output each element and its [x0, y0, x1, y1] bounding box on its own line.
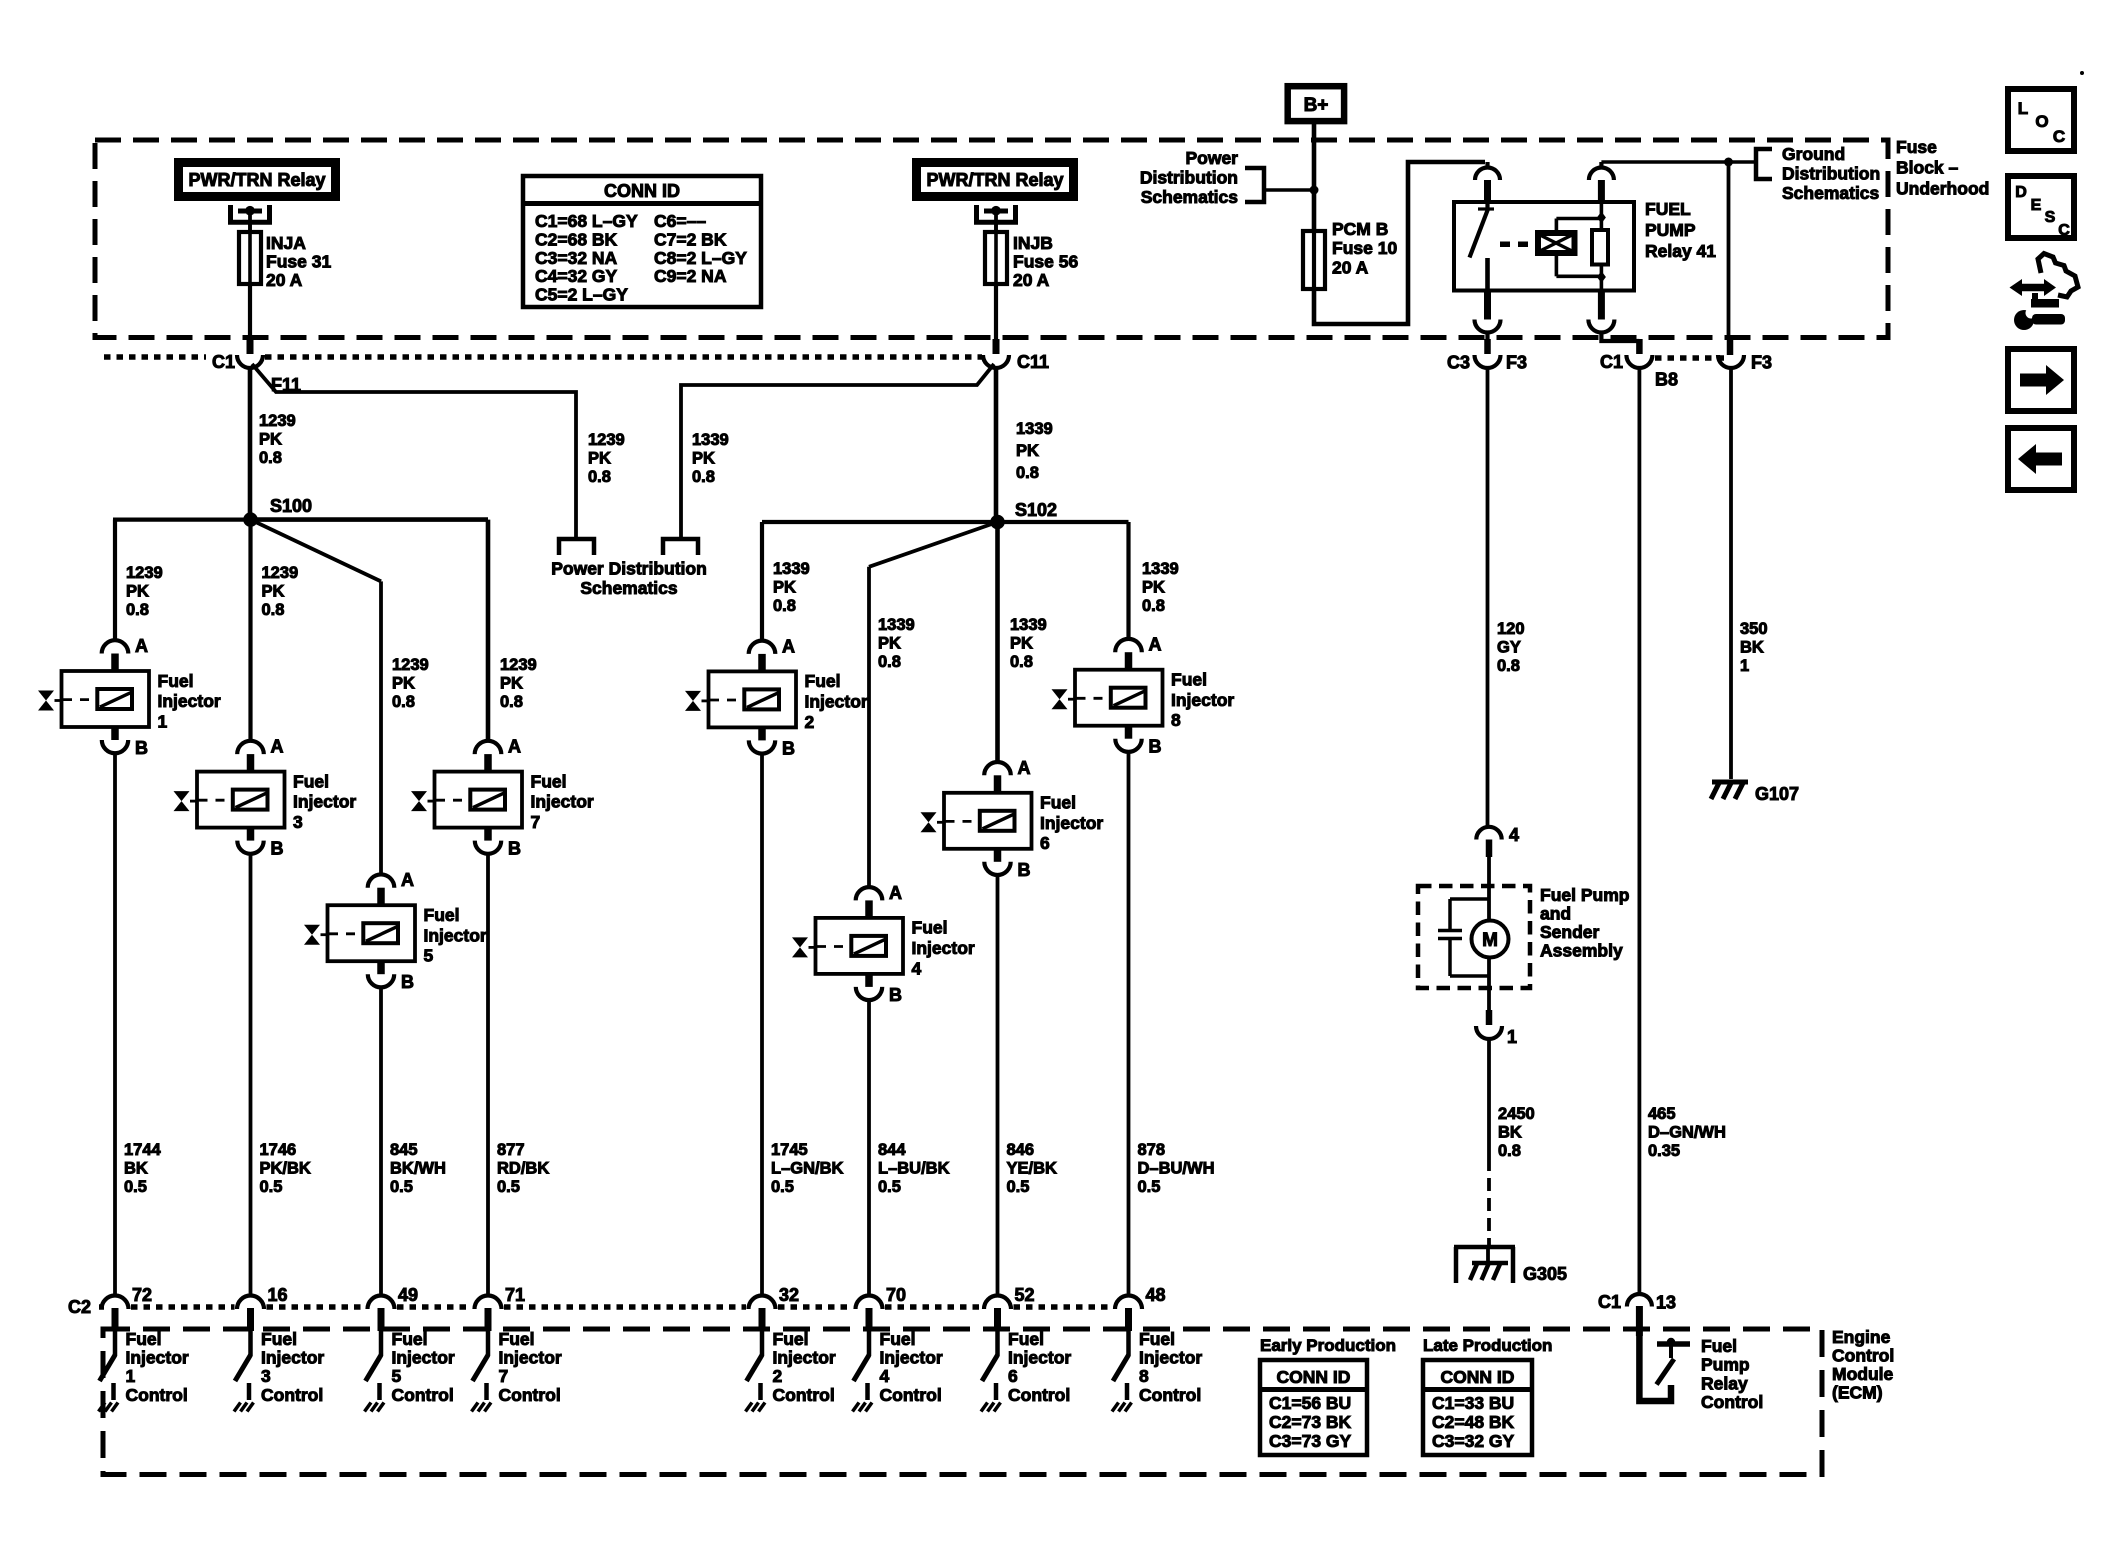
svg-text:52: 52: [1015, 1285, 1035, 1305]
ECM pin 48 connector: [1115, 1296, 1142, 1332]
wire relay coil return to connector C1/B8: [1601, 333, 1639, 355]
label 1239 PK 0.8 (branch): [588, 431, 625, 486]
svg-text:PK: PK: [1016, 442, 1039, 460]
label 1239 PK 0.8 (injector 3): [262, 564, 299, 619]
svg-text:Fuel: Fuel: [392, 1329, 428, 1349]
svg-text:0.5: 0.5: [771, 1178, 794, 1196]
fuse INJB Fuse 56 20 A: [985, 224, 1007, 288]
svg-text:0.5: 0.5: [1138, 1178, 1161, 1196]
wire 465 D-GN/WH (relay control): [1638, 368, 1642, 1294]
svg-text:Power: Power: [1185, 148, 1238, 168]
svg-text:Fuse: Fuse: [1896, 137, 1937, 157]
fuel injector 4: [792, 883, 975, 1005]
svg-text:1239: 1239: [126, 564, 163, 582]
label 1339 PK 0.8 (injector 6): [1010, 616, 1047, 671]
wire S102 to injector 6 column: [995, 522, 1000, 763]
label 844 L–BU/BK 0.5: [878, 1141, 950, 1196]
svg-text:1: 1: [126, 1366, 136, 1386]
svg-text:Injector: Injector: [805, 692, 868, 712]
svg-text:A: A: [782, 636, 795, 656]
svg-text:C2: C2: [68, 1297, 91, 1317]
svg-text:C2=48 BK: C2=48 BK: [1432, 1412, 1515, 1432]
svg-text:0.5: 0.5: [497, 1178, 520, 1196]
svg-text:878: 878: [1138, 1141, 1166, 1159]
fuse INJA Fuse 31 20 A: [239, 224, 261, 288]
svg-text:PCM B: PCM B: [1332, 219, 1388, 239]
svg-text:B: B: [1018, 860, 1031, 880]
fuel injector 5 control driver: [365, 1329, 455, 1412]
label F3 (at C3): [1506, 353, 1527, 373]
fuel injector 3: [174, 737, 357, 859]
fuel injector 5: [304, 870, 487, 992]
svg-text:0.8: 0.8: [1010, 653, 1033, 671]
svg-text:845: 845: [390, 1141, 418, 1159]
ground G305: [1454, 1247, 1515, 1283]
wire relay coil to ground distribution junction: [1601, 162, 1728, 168]
svg-text:Schematics: Schematics: [580, 578, 678, 598]
connector C1 (fuse block to harness): [237, 355, 263, 368]
svg-text:Fuel Pump: Fuel Pump: [1540, 885, 1629, 905]
ECM pin 70 connector: [856, 1296, 883, 1332]
svg-text:PK: PK: [262, 583, 285, 601]
svg-text:B: B: [508, 839, 521, 859]
label C2: [68, 1297, 91, 1317]
svg-text:F3: F3: [1506, 353, 1527, 373]
fuel injector 3 control driver: [234, 1329, 324, 1412]
svg-text:Fuse 31: Fuse 31: [266, 251, 331, 271]
svg-text:71: 71: [505, 1285, 525, 1305]
svg-text:5: 5: [392, 1366, 402, 1386]
svg-text:Injector: Injector: [261, 1348, 324, 1368]
fuel injector 1: [38, 636, 221, 758]
CONN ID table (early production): [1260, 1360, 1367, 1455]
engine control module (ECM) boundary: [103, 1329, 1822, 1475]
label 1339 PK 0.8 (injector 8): [1142, 560, 1179, 615]
label pin 70: [886, 1285, 906, 1305]
svg-text:1746: 1746: [260, 1141, 297, 1159]
svg-text:2450: 2450: [1498, 1105, 1535, 1123]
svg-text:877: 877: [497, 1141, 525, 1159]
svg-text:PWR/TRN Relay: PWR/TRN Relay: [188, 170, 325, 190]
svg-text:S100: S100: [270, 496, 312, 516]
power distribution stub bracket (1239): [559, 539, 594, 555]
label INJA Fuse 31 20 A: [266, 233, 331, 290]
wire 120 GY 0.8 (C3 to fuel pump): [1486, 368, 1490, 827]
svg-text:16: 16: [268, 1285, 288, 1305]
svg-text:Fuel: Fuel: [126, 1329, 162, 1349]
label C3: [1447, 353, 1470, 373]
svg-text:1339: 1339: [1010, 616, 1047, 634]
label Power Distribution Schematics (top): [1140, 148, 1238, 207]
wire S100 to injector 1 column: [113, 520, 251, 641]
svg-text:C11: C11: [1017, 352, 1049, 372]
svg-text:Fuel: Fuel: [1139, 1329, 1175, 1349]
svg-text:Fuel: Fuel: [1171, 670, 1207, 690]
svg-text:B: B: [271, 839, 284, 859]
svg-text:0.8: 0.8: [262, 601, 285, 619]
wire S100 to injector 3 column: [248, 520, 252, 742]
relay contact symbol (right PWR/TRN): [977, 205, 1016, 232]
svg-text:Injector: Injector: [531, 792, 594, 812]
label 877 RD/BK 0.5: [497, 1141, 549, 1196]
label 1239 PK 0.8 (C1 feed): [259, 412, 296, 467]
svg-text:20 A: 20 A: [1013, 270, 1050, 290]
svg-text:Injector: Injector: [912, 938, 975, 958]
ECM pin 71 connector: [475, 1296, 502, 1332]
connector C11: [983, 355, 1009, 368]
label 350 BK 1: [1740, 620, 1768, 675]
svg-text:Injector: Injector: [1008, 1348, 1071, 1368]
svg-text:C2=73 BK: C2=73 BK: [1269, 1412, 1352, 1432]
svg-text:Injector: Injector: [424, 925, 487, 945]
label: Fuse Block - Underhood: [1896, 137, 1989, 199]
wire C11 branch to power distribution: [681, 364, 994, 539]
svg-text:0.8: 0.8: [500, 693, 523, 711]
svg-text:D–GN/WH: D–GN/WH: [1648, 1124, 1726, 1142]
svg-text:350: 350: [1740, 620, 1768, 638]
label pin 71: [505, 1285, 525, 1305]
svg-text:A: A: [889, 883, 902, 903]
svg-text:Fuel: Fuel: [912, 918, 948, 938]
svg-text:C4=32 GY: C4=32 GY: [535, 266, 618, 286]
label 120 GY 0.8: [1497, 620, 1525, 675]
svg-text:C2=68 BK: C2=68 BK: [535, 229, 618, 249]
svg-text:Injector: Injector: [1040, 813, 1103, 833]
svg-text:B8: B8: [1655, 370, 1678, 390]
svg-text:Relay 41: Relay 41: [1645, 241, 1716, 261]
svg-text:Fuel: Fuel: [499, 1329, 535, 1349]
relay PWR/TRN (left) name box: [179, 163, 336, 197]
svg-text:PK: PK: [259, 431, 282, 449]
svg-text:Relay: Relay: [1701, 1373, 1748, 1393]
label INJB Fuse 56 20 A: [1013, 233, 1078, 290]
svg-text:PK: PK: [692, 450, 715, 468]
wire fuel injector 2 control to ECM: [760, 753, 764, 1295]
svg-text:0.8: 0.8: [1498, 1142, 1521, 1160]
svg-text:C8=2 L–GY: C8=2 L–GY: [654, 248, 747, 268]
label B8: [1655, 370, 1678, 390]
svg-text:BK: BK: [1740, 639, 1764, 657]
label F11: [271, 375, 301, 395]
svg-text:1239: 1239: [262, 564, 299, 582]
label Engine Control Module (ECM): [1832, 1327, 1894, 1403]
svg-text:0.5: 0.5: [260, 1178, 283, 1196]
wire fuse INJB to connector C11: [994, 284, 998, 354]
connector F3 (right): [1718, 355, 1744, 368]
svg-text:20 A: 20 A: [1332, 258, 1369, 278]
svg-text:1: 1: [1740, 657, 1749, 675]
svg-text:D–BU/WH: D–BU/WH: [1138, 1160, 1215, 1178]
dotted connector row B8 to F3: [1655, 355, 1725, 361]
wire fuel injector 6 control to ECM: [996, 875, 1000, 1296]
wire fuel injector 5 control to ECM: [379, 987, 383, 1295]
svg-text:PK: PK: [500, 675, 523, 693]
fuel injector 2: [685, 636, 868, 758]
label 1746 PK/BK 0.5: [260, 1141, 311, 1196]
splice S100: [243, 512, 258, 527]
label C1: [212, 352, 235, 372]
svg-text:Fuel: Fuel: [424, 905, 460, 925]
svg-text:S102: S102: [1015, 500, 1057, 520]
dotted connector row C2 (ECM): [99, 1304, 1113, 1310]
svg-text:INJB: INJB: [1013, 233, 1053, 253]
svg-text:Fuel: Fuel: [293, 771, 329, 791]
svg-text:3: 3: [293, 812, 303, 832]
wire junction to connector F3 (350 BK feed): [1729, 162, 1731, 355]
label Power Distribution Schematics (bottom): [551, 559, 707, 599]
connector 4 (fuel pump): [1476, 827, 1501, 857]
CONN ID table (fuse block): [523, 176, 761, 307]
icon LOC: [2008, 89, 2074, 151]
svg-text:C7=2 BK: C7=2 BK: [654, 229, 727, 249]
svg-text:Control: Control: [499, 1385, 561, 1405]
svg-text:1: 1: [158, 711, 168, 731]
svg-text:PUMP: PUMP: [1645, 220, 1696, 240]
label PCM B Fuse 10 20 A: [1332, 219, 1397, 278]
fuel injector 1 control driver: [99, 1329, 189, 1412]
svg-text:Injector: Injector: [293, 792, 356, 812]
svg-text:4: 4: [1509, 825, 1519, 845]
svg-text:1339: 1339: [1016, 420, 1053, 438]
wire fuel injector 7 control to ECM: [486, 854, 490, 1296]
label 1744 BK 0.5: [124, 1141, 162, 1196]
svg-text:A: A: [135, 636, 148, 656]
svg-text:1239: 1239: [259, 412, 296, 430]
svg-text:1339: 1339: [1142, 560, 1179, 578]
svg-text:0.8: 0.8: [1497, 657, 1520, 675]
svg-text:A: A: [401, 870, 414, 890]
label G305: [1523, 1264, 1567, 1284]
svg-text:Fuel: Fuel: [261, 1329, 297, 1349]
wire S102 to injector 4 column: [869, 522, 998, 888]
svg-text:CONN ID: CONN ID: [604, 181, 680, 201]
svg-text:Fuel: Fuel: [1040, 793, 1076, 813]
svg-text:L–BU/BK: L–BU/BK: [878, 1160, 950, 1178]
svg-text:A: A: [271, 737, 284, 757]
svg-text:2: 2: [805, 712, 815, 732]
svg-text:4: 4: [912, 958, 922, 978]
svg-text:Control: Control: [1139, 1385, 1201, 1405]
ECM pin 52 connector: [984, 1296, 1011, 1332]
svg-text:and: and: [1540, 903, 1571, 923]
ECM pin 16 connector: [237, 1296, 264, 1332]
relay FUEL PUMP Relay 41: [1454, 168, 1634, 333]
svg-text:C1: C1: [1598, 1292, 1621, 1312]
svg-text:Late Production: Late Production: [1423, 1336, 1552, 1355]
svg-text:S: S: [2045, 209, 2056, 226]
fuse block - underhood boundary (dashed box): [95, 140, 1888, 338]
svg-text:A: A: [1149, 635, 1162, 655]
svg-text:G305: G305: [1523, 1264, 1567, 1284]
svg-text:0.8: 0.8: [392, 693, 415, 711]
label 4: [1509, 825, 1519, 845]
wire C1 to splice S100 (1239 PK): [248, 368, 253, 514]
svg-text:1239: 1239: [500, 656, 537, 674]
label S102: [1015, 500, 1057, 520]
svg-text:Pump: Pump: [1701, 1355, 1750, 1375]
junction ground distribution tap: [1724, 158, 1733, 167]
relay contact symbol (left PWR/TRN): [231, 205, 270, 232]
svg-text:INJA: INJA: [266, 233, 306, 253]
wire fuel injector 1 control to ECM: [113, 753, 117, 1296]
connector C3 / F3: [1475, 355, 1501, 368]
power distribution stub bracket (1339): [663, 539, 698, 555]
svg-text:A: A: [1018, 758, 1031, 778]
label 1745 L–GN/BK 0.5: [771, 1141, 844, 1196]
svg-text:C3=32 NA: C3=32 NA: [535, 248, 618, 268]
svg-text:Power Distribution: Power Distribution: [551, 559, 707, 579]
svg-text:PK: PK: [126, 583, 149, 601]
svg-text:PWR/TRN Relay: PWR/TRN Relay: [926, 170, 1063, 190]
svg-text:F3: F3: [1751, 353, 1772, 373]
svg-text:Control: Control: [773, 1385, 835, 1405]
label 1339 PK 0.8 (injector 2): [773, 560, 810, 615]
svg-text:L–GN/BK: L–GN/BK: [771, 1160, 844, 1178]
svg-text:72: 72: [132, 1285, 152, 1305]
wire F11 branch to power distribution: [252, 364, 576, 539]
wire fuel injector 4 control to ECM: [867, 1000, 871, 1296]
svg-text:Fuse 10: Fuse 10: [1332, 238, 1397, 258]
label 846 YE/BK 0.5: [1007, 1141, 1058, 1196]
label Fuel Pump and Sender Assembly: [1540, 885, 1629, 961]
svg-text:Fuel: Fuel: [1008, 1329, 1044, 1349]
svg-text:8: 8: [1171, 710, 1181, 730]
label FUEL PUMP Relay 41: [1645, 199, 1716, 261]
ECM pin 72 connector: [102, 1296, 129, 1332]
label 1239 PK 0.8 (injector 5): [392, 656, 429, 711]
svg-text:Control: Control: [261, 1385, 323, 1405]
svg-text:C1=56 BU: C1=56 BU: [1269, 1393, 1351, 1413]
svg-text:YE/BK: YE/BK: [1007, 1160, 1058, 1178]
fuel injector 6: [921, 758, 1104, 880]
svg-text:Fuel: Fuel: [531, 771, 567, 791]
svg-text:Control: Control: [1832, 1345, 1894, 1365]
svg-text:Fuel: Fuel: [880, 1329, 916, 1349]
svg-text:CONN ID: CONN ID: [1277, 1367, 1351, 1387]
fuel pump and sender assembly: [1418, 886, 1530, 1010]
wire fuel injector 8 control to ECM: [1127, 752, 1131, 1296]
svg-text:120: 120: [1497, 620, 1525, 638]
svg-text:Injector: Injector: [158, 691, 221, 711]
wire S102 to injector 8 column: [998, 522, 1129, 640]
svg-text:Block –: Block –: [1896, 158, 1959, 178]
label 13: [1656, 1293, 1676, 1313]
svg-text:20 A: 20 A: [266, 270, 303, 290]
svg-text:Early Production: Early Production: [1260, 1336, 1396, 1355]
svg-text:6: 6: [1040, 833, 1050, 853]
svg-text:C5=2 L–GY: C5=2 L–GY: [535, 285, 628, 305]
label Ground Distribution Schematics: [1782, 144, 1880, 203]
svg-text:BK/WH: BK/WH: [390, 1160, 446, 1178]
icon DESC: [2008, 176, 2074, 239]
battery feed B+ box: [1288, 86, 1344, 121]
svg-text:0.8: 0.8: [1142, 597, 1165, 615]
label 465 D-GN/WH 0.35: [1648, 1105, 1726, 1160]
fuel injector 7: [411, 737, 594, 859]
svg-text:BK: BK: [1498, 1124, 1522, 1142]
svg-text:C: C: [2058, 222, 2070, 239]
svg-text:E: E: [2031, 197, 2042, 214]
svg-text:Fuel: Fuel: [805, 671, 841, 691]
fuse PCM B Fuse 10 20 A: [1303, 231, 1325, 289]
svg-text:7: 7: [531, 812, 541, 832]
svg-text:PK/BK: PK/BK: [260, 1160, 311, 1178]
svg-text:1239: 1239: [392, 656, 429, 674]
label pin 49: [398, 1285, 418, 1305]
splice S102: [990, 515, 1005, 530]
power distribution schematics bracket (top): [1245, 168, 1264, 202]
svg-text:49: 49: [398, 1285, 418, 1305]
label 1239 PK 0.8 (injector 1): [126, 564, 163, 619]
svg-text:D: D: [2015, 184, 2027, 201]
wire connector 4 to fuel pump: [1487, 857, 1491, 920]
wire C11 to splice S102 (1339 PK): [994, 368, 999, 516]
svg-text:0.8: 0.8: [588, 468, 611, 486]
fuel injector 2 control driver: [746, 1329, 836, 1412]
wire S102 to injector 2 column: [762, 522, 998, 641]
svg-text:B: B: [135, 738, 148, 758]
svg-text:C1: C1: [212, 352, 235, 372]
svg-text:Ground: Ground: [1782, 144, 1845, 164]
svg-text:0.8: 0.8: [259, 449, 282, 467]
connector 1 (fuel pump): [1476, 1010, 1502, 1039]
svg-text:Fuel: Fuel: [1701, 1336, 1737, 1356]
wire fuel injector 3 control to ECM: [249, 854, 253, 1296]
ground distribution schematics bracket: [1756, 149, 1772, 179]
svg-text:PK: PK: [1142, 579, 1165, 597]
svg-text:PK: PK: [392, 675, 415, 693]
svg-text:5: 5: [424, 946, 434, 966]
svg-text:1745: 1745: [771, 1141, 808, 1159]
artifact dot: [2080, 71, 2084, 75]
svg-text:Injector: Injector: [392, 1348, 455, 1368]
svg-text:Engine: Engine: [1832, 1327, 1891, 1347]
svg-text:465: 465: [1648, 1105, 1676, 1123]
svg-text:1339: 1339: [692, 431, 729, 449]
icon next arrow: [2008, 349, 2074, 411]
relay PWR/TRN (right) name box: [917, 163, 1074, 197]
svg-text:8: 8: [1139, 1366, 1149, 1386]
svg-text:(ECM): (ECM): [1832, 1383, 1883, 1403]
svg-text:Control: Control: [1008, 1385, 1070, 1405]
connector C1 / B8: [1626, 355, 1652, 368]
label pin 16: [268, 1285, 288, 1305]
label C11: [1017, 352, 1049, 372]
svg-text:Schematics: Schematics: [1141, 187, 1239, 207]
svg-text:70: 70: [886, 1285, 906, 1305]
wire relay switch to connector C3: [1485, 333, 1489, 355]
svg-text:Distribution: Distribution: [1140, 168, 1238, 188]
label pin 48: [1146, 1285, 1166, 1305]
svg-text:B: B: [1149, 737, 1162, 757]
svg-text:Underhood: Underhood: [1896, 178, 1989, 198]
svg-text:PK: PK: [773, 579, 796, 597]
svg-text:C3=73 GY: C3=73 GY: [1269, 1431, 1352, 1451]
svg-text:Injector: Injector: [1171, 690, 1234, 710]
label S100: [270, 496, 312, 516]
svg-text:Injector: Injector: [773, 1348, 836, 1368]
svg-text:0.5: 0.5: [124, 1178, 147, 1196]
svg-text:Sender: Sender: [1540, 922, 1600, 942]
svg-text:B+: B+: [1304, 95, 1329, 116]
connector C1 / 13 (ECM): [1627, 1294, 1652, 1336]
svg-text:4: 4: [880, 1366, 890, 1386]
wire S100 to injector 5 column: [251, 520, 382, 876]
fuel injector 7 control driver: [472, 1329, 562, 1412]
svg-text:0.5: 0.5: [390, 1178, 413, 1196]
svg-text:0.8: 0.8: [773, 597, 796, 615]
svg-text:Assembly: Assembly: [1540, 941, 1623, 961]
